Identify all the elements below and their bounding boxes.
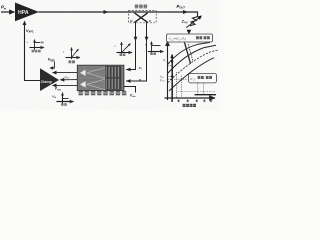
wire coupler C-port down xyxy=(126,23,148,83)
arrow on main wire xyxy=(104,10,109,14)
arrow near Pout xyxy=(183,10,188,14)
wire clamp output feedback up to HPA xyxy=(25,22,41,81)
callout box right: gamma L increases xyxy=(189,74,217,83)
block channel 2 amp triangle xyxy=(87,79,105,90)
detector curve symbol S5 (clamp level, near VAPC wire) xyxy=(27,40,44,53)
detector curve symbol S4 (below clamp) xyxy=(52,93,73,106)
label Pf at coupler line 1 elbow xyxy=(139,66,142,71)
dashed guide horizontal 2 xyxy=(168,75,173,77)
wire detector block to clamp input 1 xyxy=(53,72,78,74)
label VREF xyxy=(48,58,56,63)
label Pr at coupler line 2 elbow xyxy=(139,78,142,83)
wire main output xyxy=(39,11,199,13)
label VCPL xyxy=(55,87,62,92)
x axis caption 输入电压 (blob text) xyxy=(183,104,196,107)
label Pin xyxy=(1,5,7,11)
wire detector block to clamp input 2 (middle) xyxy=(60,79,77,81)
callout arrow down xyxy=(187,30,192,35)
curve family line 3 (dashed) xyxy=(168,50,218,83)
load ZL (mismatched variable load) xyxy=(181,15,202,27)
protection drop segment (steep) xyxy=(185,43,191,64)
detector curve symbol S3 (ramp arrow, near VREF) xyxy=(63,48,80,64)
callout box top: Vout = f(Vin, RL) xyxy=(167,34,213,42)
wire detector block to clamp input 3 xyxy=(53,84,78,86)
protection drop segment 2 xyxy=(188,44,193,61)
wire block aux output xyxy=(124,87,136,93)
dashed guide horizontal 3 xyxy=(168,78,188,80)
block channel 2 striped cell xyxy=(106,78,121,89)
x axis tick labels xyxy=(171,100,212,102)
curve family line 2 xyxy=(168,45,217,73)
label Vdet xyxy=(130,93,136,98)
dashed guide vertical 2 xyxy=(180,76,182,98)
node dot B xyxy=(171,75,173,77)
coupler dashed box xyxy=(129,11,157,23)
block channel 2 input arrowhead xyxy=(80,81,86,87)
wire VREF into clamp xyxy=(51,61,54,68)
op-amp U1 HPA xyxy=(15,3,39,22)
curve family line 4 xyxy=(169,58,214,91)
block caption 电压驻波比检测器 (blob text) xyxy=(79,91,127,95)
block channel 1 striped cell xyxy=(106,66,121,77)
detector curve symbol S2 (saturating) xyxy=(145,42,164,56)
label VAPC xyxy=(26,29,34,34)
scan noise overlay xyxy=(0,0,1,1)
coupler X arms xyxy=(135,13,148,23)
coupler title 耦合器 (blob text) xyxy=(135,5,147,9)
label Pout xyxy=(177,4,186,10)
block channel 1 input arrowhead xyxy=(80,70,86,76)
dashed guide vertical 3 xyxy=(197,84,199,95)
graph y-axis xyxy=(167,41,169,100)
VSWR detector block xyxy=(77,65,124,90)
graph x-axis xyxy=(165,97,216,99)
op-amp U2 Clamp xyxy=(40,68,59,91)
wire input to HPA xyxy=(1,11,15,13)
node dot A xyxy=(171,60,173,62)
dotted level above floor xyxy=(177,91,215,93)
dashed guide vertical 4 xyxy=(202,84,204,95)
wire down to load xyxy=(197,12,199,17)
curve family line 1 xyxy=(168,42,211,64)
dashed guide vertical 1 xyxy=(176,72,178,98)
label on middle wire xyxy=(65,75,71,80)
clamp floor level (thick) xyxy=(195,94,217,96)
wire coupler D-port down xyxy=(126,23,137,72)
dashed guide horizontal 1 xyxy=(168,65,173,67)
operating point vertical (thick) xyxy=(171,55,173,102)
block channel 1 amp triangle xyxy=(87,68,105,79)
detector curve symbol S1 (linear) xyxy=(114,42,132,56)
